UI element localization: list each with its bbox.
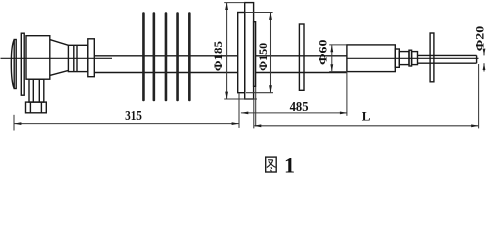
sleeve collar (395, 49, 399, 67)
dim L line (254, 125, 478, 127)
dim 485 line (241, 112, 347, 114)
dim 315 line (14, 123, 238, 125)
arrow phi60 top (330, 45, 333, 52)
flange hub ring (254, 22, 256, 87)
protection tube right (256, 55, 347, 57)
arrow phi185 top (225, 3, 228, 10)
head cover flange (21, 33, 24, 95)
head cap plate (14, 40, 16, 89)
svg-text:Φ150: Φ150 (256, 43, 270, 71)
mounting disc (phi150) (238, 13, 245, 93)
arrow 315 right (232, 122, 239, 125)
dim phi60 line (331, 45, 333, 71)
cable stem (29, 79, 44, 102)
arrow L right (471, 124, 478, 127)
arrow phi20 top (483, 49, 486, 56)
head box (26, 36, 50, 79)
arrow phi185 bottom (225, 92, 228, 99)
fins (142, 12, 191, 101)
svg-text:Φ20: Φ20 (474, 26, 486, 52)
svg-text:485: 485 (290, 100, 309, 115)
svg-text:Φ60: Φ60 (317, 39, 329, 65)
dim phi150 line (270, 13, 272, 92)
flange ring face extension (255, 87, 257, 127)
phi60 sleeve (347, 45, 395, 72)
dim phi185 line (226, 3, 228, 99)
dim 315 extension left (13, 115, 15, 131)
protection tube left (94, 55, 237, 57)
dim phi20 line upper (483, 52, 485, 56)
mounting flange (phi185) (245, 3, 254, 99)
svg-text:L: L (362, 109, 371, 124)
arrow 315 left (14, 122, 21, 125)
dim L extension right (478, 64, 480, 128)
arrow phi20 bottom (483, 63, 486, 70)
dim 485 extension right (346, 72, 348, 116)
dim phi185 extension bottom (224, 98, 257, 100)
dim phi20 line lower (483, 63, 485, 71)
head end cap (11, 40, 14, 89)
coupling tube b (412, 52, 418, 65)
dim phi185 extension top (224, 2, 245, 4)
coupling tube a (399, 52, 409, 65)
arrow phi150 bottom (269, 85, 272, 92)
neck cylinder (68, 45, 87, 71)
dim 315 extension right (238, 93, 240, 128)
dim L extension left (253, 100, 255, 129)
rod (418, 54, 477, 56)
loose flange disc (299, 24, 304, 90)
hex union (88, 39, 95, 77)
svg-text:Φ185: Φ185 (211, 41, 225, 71)
centerline right segment (347, 57, 479, 59)
arrow 485 right (340, 112, 347, 115)
hanzi tu (figure) glyph drawn as strokes (266, 157, 277, 172)
centerline left segment (1, 57, 113, 59)
arrow phi60 bottom (330, 64, 333, 71)
arrow phi150 top (269, 13, 272, 20)
coupling ring (409, 50, 412, 66)
arrow L left (254, 124, 261, 127)
svg-text:1: 1 (284, 153, 295, 178)
dim phi60 extension bottom (329, 71, 347, 73)
svg-text:315: 315 (125, 109, 142, 124)
dim phi60 extension top (329, 44, 347, 46)
cable nut (26, 102, 47, 113)
neck cone (50, 40, 69, 46)
rod disc (430, 33, 434, 82)
dim phi150 extension bottom (246, 92, 273, 94)
dim phi150 extension top (245, 12, 273, 14)
arrow 485 left (241, 112, 248, 115)
